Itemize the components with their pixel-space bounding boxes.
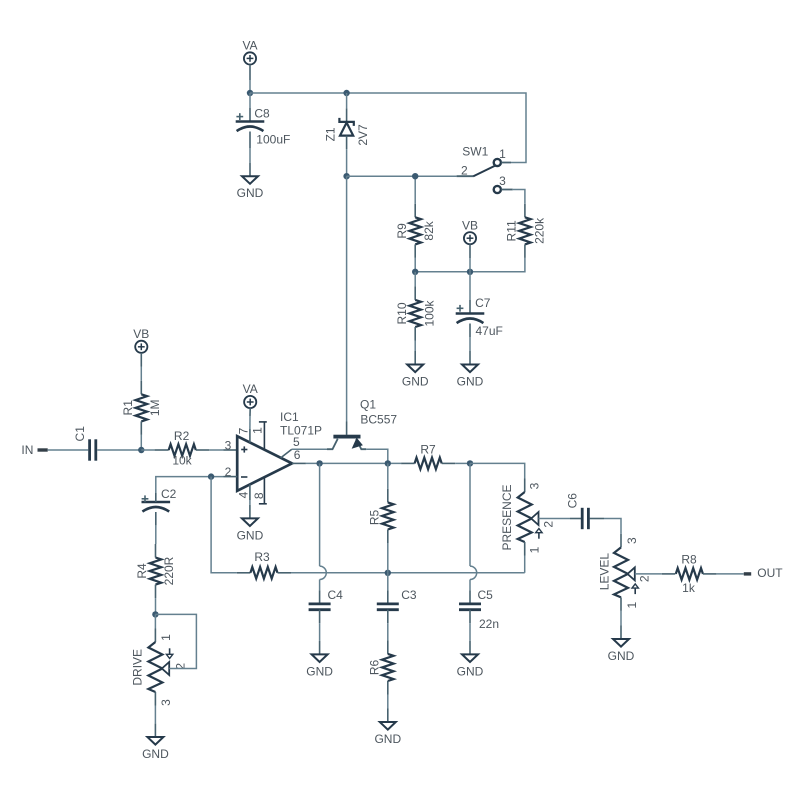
- wire to presence pot pin3: [470, 463, 525, 478]
- svg-text:1: 1: [625, 602, 639, 609]
- wire C3 to R6: [387, 623, 389, 640]
- wire C2 to R4: [155, 525, 157, 544]
- resistor R1 1M: [140, 367, 142, 381]
- svg-text:GND: GND: [457, 375, 484, 389]
- capacitor C2: [142, 501, 171, 504]
- node R9 top junction: [412, 173, 418, 179]
- svg-text:GND: GND: [402, 375, 429, 389]
- wire R5 to bottom rail: [387, 543, 389, 573]
- resistor R11 220k: [524, 204, 526, 218]
- wire output to C4 with hop: [319, 463, 321, 566]
- wire LEVEL wiper to R8: [635, 573, 662, 575]
- resistor R9 82k: [414, 176, 416, 204]
- capacitor C4: [319, 590, 321, 604]
- svg-text:10k: 10k: [172, 454, 192, 468]
- svg-text:100k: 100k: [422, 299, 436, 326]
- zener diode Z1 2V7: [346, 93, 348, 108]
- wire R9 to lower rail: [414, 258, 416, 272]
- svg-text:C8: C8: [254, 107, 270, 121]
- svg-text:GND: GND: [237, 528, 264, 542]
- power supply VB (input bias): [135, 341, 147, 353]
- op-amp IC1 TL071P: [237, 436, 292, 491]
- svg-text:C4: C4: [328, 588, 344, 602]
- wire R6 to ground: [387, 695, 389, 709]
- resistor R7: [401, 462, 415, 464]
- resistor R3: [237, 572, 251, 574]
- ground below DRIVE: [154, 724, 156, 738]
- svg-text:VB: VB: [133, 327, 149, 341]
- svg-text:3: 3: [225, 438, 232, 452]
- ground below C8: [249, 163, 251, 177]
- svg-text:GND: GND: [608, 649, 635, 663]
- svg-text:1k: 1k: [682, 581, 696, 595]
- node VA rail junction: [247, 90, 253, 96]
- svg-text:2: 2: [542, 521, 556, 528]
- wire PRESENCE pin1 to bottom rail: [524, 542, 526, 556]
- wire R4 to drive pot: [155, 598, 157, 614]
- svg-text:IN: IN: [21, 443, 33, 457]
- node Z1 top junction: [343, 90, 349, 96]
- wire bias rail to SW1 pin2: [347, 175, 457, 177]
- wire Q1 base from bias junction: [346, 176, 348, 421]
- svg-text:C3: C3: [401, 588, 417, 602]
- ground below R6: [387, 709, 389, 723]
- svg-text:DRIVE: DRIVE: [130, 649, 144, 686]
- wire R10 to ground: [414, 341, 416, 352]
- svg-text:R7: R7: [420, 442, 436, 456]
- svg-text:82k: 82k: [422, 220, 436, 240]
- svg-text:220R: 220R: [162, 556, 176, 585]
- node R7/C5 junction: [467, 460, 473, 466]
- resistor R8 1k: [662, 573, 676, 575]
- wire R7 node to C5 with hop: [469, 463, 471, 566]
- pin 4 lead of IC1 to ground: [249, 484, 251, 500]
- node R9/R10 junction: [412, 269, 418, 275]
- svg-text:2V7: 2V7: [356, 124, 370, 146]
- svg-text:1: 1: [499, 147, 506, 161]
- wire Q1 emitter to output node: [366, 449, 388, 463]
- capacitor C3: [387, 573, 389, 591]
- svg-text:1: 1: [251, 427, 265, 434]
- svg-text:3: 3: [159, 699, 173, 706]
- svg-text:1M: 1M: [148, 399, 162, 416]
- svg-text:R5: R5: [368, 510, 382, 526]
- wire pin2 to C2 and R3: [156, 477, 224, 493]
- svg-text:C1: C1: [73, 426, 87, 442]
- svg-text:VA: VA: [242, 39, 257, 53]
- svg-text:Q1: Q1: [360, 398, 376, 412]
- resistor R10 100k: [414, 272, 416, 287]
- svg-text:GND: GND: [142, 747, 169, 761]
- capacitor C1: [88, 439, 91, 460]
- ground below LEVEL: [620, 626, 622, 640]
- op-amp output pin6 lead: [292, 462, 306, 464]
- svg-text:1: 1: [159, 634, 173, 641]
- svg-text:2: 2: [461, 163, 468, 177]
- resistor R2 10k: [141, 449, 154, 451]
- wire C5 to ground: [469, 623, 471, 641]
- capacitor C6: [570, 518, 582, 520]
- node VB junction: [467, 269, 473, 275]
- svg-text:R4: R4: [135, 563, 149, 579]
- capacitor C5 22n: [469, 590, 471, 604]
- svg-text:22n: 22n: [479, 617, 499, 631]
- wire R3 along bottom rail to presence pot pin1: [291, 572, 525, 574]
- pin 7 lead of IC1 to VA: [249, 429, 251, 443]
- wire top rail to SW1 pin1: [250, 93, 526, 163]
- svg-text:7: 7: [237, 427, 251, 434]
- wire R7 to presence pot: [455, 462, 470, 464]
- svg-text:R2: R2: [174, 429, 190, 443]
- resistor R6: [387, 640, 389, 654]
- ground below C4: [319, 641, 321, 655]
- svg-text:GND: GND: [306, 664, 333, 678]
- svg-text:VB: VB: [462, 218, 478, 232]
- svg-text:R11: R11: [505, 220, 519, 241]
- wire C7 to ground: [469, 337, 471, 351]
- svg-text:GND: GND: [237, 186, 264, 200]
- svg-text:C6: C6: [565, 493, 579, 509]
- svg-text:R3: R3: [254, 550, 270, 564]
- wire output node: [306, 462, 401, 464]
- node output/C4 junction: [316, 460, 322, 466]
- power supply VA (op-amp): [244, 396, 256, 408]
- svg-text:R9: R9: [395, 223, 409, 239]
- ground below C5: [469, 641, 471, 655]
- svg-text:100uF: 100uF: [256, 133, 290, 147]
- svg-text:3: 3: [625, 537, 639, 544]
- node bottom rail / C3 junction: [385, 570, 391, 576]
- svg-text:TL071P: TL071P: [280, 424, 322, 438]
- pin 1 stub of IC1: [263, 422, 265, 450]
- svg-text:R10: R10: [395, 302, 409, 324]
- wire IN to C1: [48, 449, 88, 451]
- wire R1 to input node: [140, 435, 142, 450]
- node output/Q1 junction: [385, 460, 391, 466]
- capacitor C7 47uF: [469, 272, 471, 300]
- svg-text:C7: C7: [475, 296, 491, 310]
- op-amp pin2 lead: [224, 476, 238, 478]
- node drive junction: [152, 611, 158, 617]
- wire PRESENCE wiper to C6: [539, 518, 571, 520]
- svg-text:4: 4: [237, 491, 251, 498]
- svg-text:GND: GND: [374, 732, 401, 746]
- wire R8 to OUT: [716, 573, 743, 575]
- svg-text:LEVEL: LEVEL: [598, 553, 612, 591]
- wire C8 to ground: [249, 148, 251, 163]
- wire LEVEL pin1 to ground: [620, 597, 622, 611]
- ground below R10: [414, 351, 416, 365]
- wire VA to top rail: [249, 80, 251, 93]
- svg-text:2: 2: [637, 575, 651, 582]
- wire DRIVE pin3 to ground: [154, 692, 156, 706]
- svg-text:3: 3: [528, 482, 542, 489]
- node input junction: [138, 447, 144, 453]
- resistor R4 220R: [155, 544, 157, 558]
- node bias junction: [343, 173, 349, 179]
- capacitor C8: [249, 93, 251, 108]
- svg-text:3: 3: [499, 174, 506, 188]
- svg-text:220k: 220k: [532, 217, 546, 244]
- ground below IC1: [249, 505, 251, 519]
- wire VB to rail: [469, 258, 471, 272]
- svg-text:IC1: IC1: [280, 410, 299, 424]
- svg-text:R8: R8: [681, 553, 697, 567]
- node feedback junction: [208, 473, 214, 479]
- pin 8 stub of IC1: [263, 477, 265, 504]
- svg-text:8: 8: [252, 492, 266, 499]
- power supply VA (top): [244, 52, 256, 64]
- wire feedback node to R3: [211, 477, 237, 573]
- svg-text:GND: GND: [457, 664, 484, 678]
- svg-text:BC557: BC557: [360, 413, 397, 427]
- svg-text:Z1: Z1: [324, 127, 338, 141]
- svg-text:VA: VA: [243, 382, 258, 396]
- ground below C7: [469, 351, 471, 365]
- port OUT: [744, 572, 751, 575]
- pin 5 stub of IC1: [281, 449, 292, 458]
- wire C4 to ground: [319, 623, 321, 641]
- wire C6 to level pot pin3: [604, 519, 621, 534]
- wire C1 to input node: [97, 449, 141, 451]
- svg-text:PRESENCE: PRESENCE: [500, 484, 514, 550]
- svg-text:SW1: SW1: [462, 145, 488, 159]
- svg-text:OUT: OUT: [757, 566, 783, 580]
- power supply VB (bias): [464, 232, 476, 244]
- wire DRIVE wiper loop: [155, 614, 196, 668]
- wire Z1 to bias junction: [346, 149, 348, 176]
- svg-text:R6: R6: [368, 660, 382, 676]
- svg-text:47uF: 47uF: [476, 324, 503, 338]
- wire SW1 pin3 to R11: [513, 190, 525, 204]
- wire pin5 to Q1 collector: [292, 448, 327, 450]
- svg-text:1: 1: [528, 546, 542, 553]
- resistor R5: [387, 463, 389, 489]
- svg-text:C5: C5: [478, 588, 494, 602]
- svg-text:C2: C2: [161, 487, 177, 501]
- wire R2 to op-amp pin3: [209, 449, 223, 451]
- svg-text:R1: R1: [121, 400, 135, 416]
- wire R11 to VB junction: [415, 258, 525, 272]
